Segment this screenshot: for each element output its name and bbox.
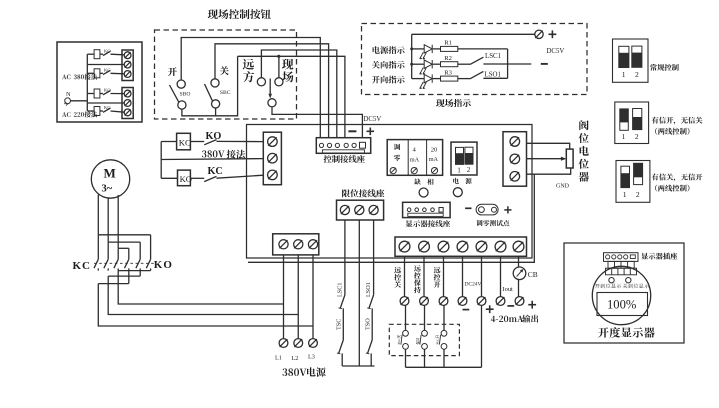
svg-text:DC5V: DC5V bbox=[547, 48, 565, 55]
svg-text:20: 20 bbox=[431, 146, 438, 153]
svg-text:KC: KC bbox=[73, 260, 92, 272]
svg-text:3~: 3~ bbox=[102, 184, 113, 195]
svg-text:TSC: TSC bbox=[336, 319, 343, 330]
svg-text:LSO1: LSO1 bbox=[365, 282, 372, 297]
svg-text:KO: KO bbox=[104, 88, 111, 93]
svg-text:KO: KO bbox=[154, 259, 173, 271]
svg-text:mA: mA bbox=[429, 156, 439, 163]
svg-text:KC: KC bbox=[179, 137, 191, 147]
svg-text:2: 2 bbox=[635, 132, 639, 141]
svg-text:LSO1: LSO1 bbox=[485, 72, 502, 79]
svg-text:1: 1 bbox=[622, 132, 626, 141]
svg-text:CB: CB bbox=[528, 270, 538, 279]
svg-text:1: 1 bbox=[622, 70, 626, 79]
svg-text:TSO: TSO bbox=[365, 318, 372, 330]
svg-text:KC: KC bbox=[104, 67, 110, 72]
svg-text:SBO: SBO bbox=[180, 92, 191, 98]
svg-text:100%: 100% bbox=[607, 297, 637, 311]
svg-text:PLC开: PLC开 bbox=[435, 334, 439, 344]
svg-text:GND: GND bbox=[556, 183, 570, 189]
svg-text:mA: mA bbox=[410, 156, 420, 163]
svg-text:DC24V: DC24V bbox=[465, 281, 482, 287]
svg-text:L1: L1 bbox=[275, 355, 282, 362]
svg-text:1: 1 bbox=[623, 190, 627, 199]
svg-text:2: 2 bbox=[635, 70, 639, 79]
svg-text:KO: KO bbox=[104, 48, 111, 53]
svg-text:DC5V: DC5V bbox=[364, 116, 382, 123]
svg-text:保持: 保持 bbox=[415, 337, 420, 344]
svg-text:LSC1: LSC1 bbox=[485, 53, 502, 60]
svg-text:M: M bbox=[104, 166, 116, 181]
svg-text:N: N bbox=[66, 91, 71, 98]
svg-text:R1: R1 bbox=[444, 40, 452, 47]
svg-text:R3: R3 bbox=[444, 69, 452, 76]
svg-text:2: 2 bbox=[467, 166, 471, 174]
svg-text:SBC: SBC bbox=[220, 90, 231, 96]
svg-text:LSC1: LSC1 bbox=[336, 283, 343, 297]
svg-text:1: 1 bbox=[457, 166, 461, 174]
svg-text:R2: R2 bbox=[444, 55, 452, 62]
svg-text:L3: L3 bbox=[308, 354, 315, 361]
svg-text:2: 2 bbox=[636, 190, 640, 199]
svg-text:Iout: Iout bbox=[503, 286, 514, 293]
svg-text:KO: KO bbox=[180, 174, 192, 184]
svg-text:KO: KO bbox=[206, 131, 222, 142]
svg-text:L2: L2 bbox=[292, 355, 299, 362]
svg-text:KC: KC bbox=[208, 166, 223, 177]
svg-text:PLC关: PLC关 bbox=[396, 334, 401, 344]
svg-text:KC: KC bbox=[104, 105, 110, 110]
